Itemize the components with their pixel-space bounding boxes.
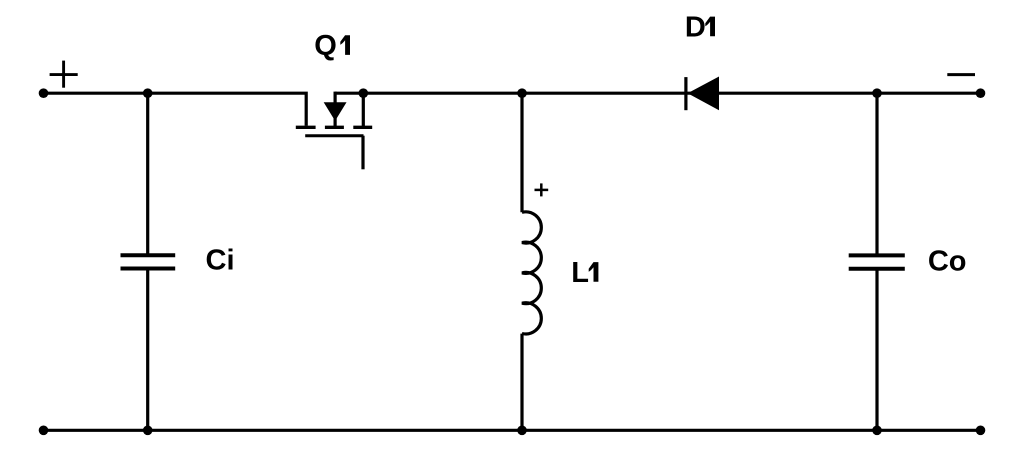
- Q1 right plate bar: [353, 126, 372, 129]
- Q1 right lead: [362, 93, 365, 127]
- svg-text:Co: Co: [928, 245, 967, 277]
- D1 triangle: [688, 77, 719, 111]
- node Ci top junction: [143, 88, 153, 98]
- capacitor Ci plates: [121, 255, 176, 268]
- node Co bottom junction: [872, 426, 882, 436]
- wire top rail right segment (Q1 body to right terminal): [335, 92, 980, 95]
- inductor L1 coil: [522, 212, 541, 334]
- Q1 body-diode arrow: [325, 103, 345, 120]
- node L1 bottom junction: [517, 426, 527, 436]
- transistor Q1 (MOSFET): [296, 92, 372, 170]
- Q1 gate bar: [305, 134, 363, 137]
- node L1 top junction: [517, 88, 527, 98]
- Q1 left plate bar: [296, 126, 316, 129]
- wire Ci lower lead: [146, 269, 149, 431]
- node left + terminal: [39, 88, 49, 98]
- capacitor Co plates: [849, 255, 905, 268]
- D1 cathode bar: [684, 77, 687, 110]
- polarity + (L1): [535, 183, 549, 196]
- svg-text:L: L: [571, 257, 589, 289]
- wire L1 upper lead: [520, 93, 523, 212]
- svg-text:Q: Q: [314, 30, 337, 62]
- wire top rail left segment with Q1 drain bend: [44, 93, 307, 126]
- svg-text:Ci: Ci: [206, 245, 235, 277]
- wire Ci upper lead: [146, 93, 149, 255]
- node bottom right terminal: [976, 426, 986, 436]
- wire bottom rail: [44, 429, 981, 432]
- node bottom left terminal: [39, 426, 49, 436]
- node Co top junction: [872, 88, 882, 98]
- wire Co lower lead: [875, 269, 878, 431]
- diode D1: [686, 77, 719, 111]
- node right - terminal: [976, 88, 986, 98]
- wire L1 lower lead: [520, 334, 523, 431]
- wire Co upper lead: [875, 93, 878, 255]
- polarity - (output): [947, 73, 975, 76]
- node dots: [39, 88, 986, 435]
- polarity + (input): [50, 61, 78, 88]
- Q1 middle plate bar: [325, 126, 344, 129]
- Q1 middle stem upper: [334, 92, 337, 104]
- node Ci bottom junction: [143, 426, 153, 436]
- Q1 gate lead: [361, 136, 364, 170]
- node Q1 source junction: [359, 88, 369, 98]
- svg-text:D: D: [685, 11, 706, 43]
- Q1 middle stem lower: [334, 117, 337, 127]
